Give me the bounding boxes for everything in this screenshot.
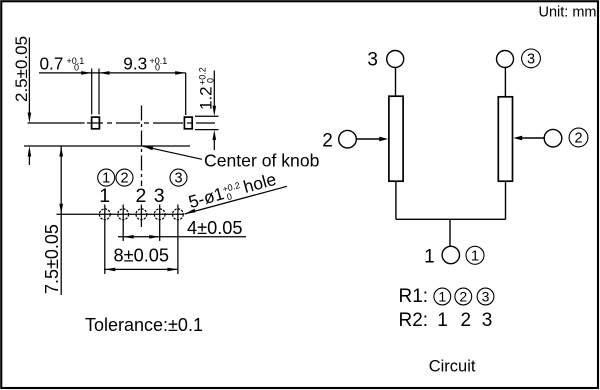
extension line for 9.3	[185, 73, 187, 115]
circled 3	[522, 49, 541, 68]
svg-text:0: 0	[226, 191, 234, 202]
hole H3	[136, 209, 147, 220]
svg-text:0.7: 0.7	[40, 53, 64, 73]
svg-text:1.2: 1.2	[197, 86, 216, 110]
terminal 1 circle	[442, 246, 459, 263]
svg-text:0: 0	[206, 78, 216, 83]
lever line left	[91, 69, 93, 115]
svg-text:3: 3	[174, 171, 182, 187]
svg-text:R2:: R2:	[399, 310, 429, 331]
hole H2	[118, 209, 129, 220]
svg-text:2: 2	[135, 185, 146, 207]
hole H1	[99, 209, 110, 220]
resistor R1 body	[389, 96, 403, 181]
wire bottom joining	[396, 218, 506, 220]
svg-text:2: 2	[459, 289, 467, 305]
dim 2.5 vertical line	[28, 38, 30, 113]
label 5-ø1 hole rotated	[186, 169, 278, 213]
terminal T1	[92, 117, 100, 129]
svg-text:7.5±0.05: 7.5±0.05	[42, 224, 62, 294]
svg-text:8±0.05: 8±0.05	[114, 246, 170, 266]
svg-text:0: 0	[155, 63, 160, 73]
svg-text:1: 1	[437, 310, 448, 331]
dim text 1.2 rotated	[197, 67, 216, 110]
svg-text:R1:: R1:	[399, 286, 429, 307]
svg-text:3: 3	[482, 289, 490, 305]
holes row line	[57, 213, 184, 215]
svg-text:3: 3	[154, 185, 165, 207]
tick hole5 / ext 8dim	[177, 205, 179, 275]
center line horizontal (dash-dot)	[28, 122, 216, 124]
svg-text:+0.2: +0.2	[221, 180, 241, 194]
pin label c2	[116, 169, 133, 186]
dim line 0.7 / 9.3	[39, 72, 186, 74]
wiper 2r circle	[544, 129, 562, 147]
wiper arrow right	[522, 137, 544, 139]
tick hole1 / ext 8dim	[104, 205, 106, 275]
svg-text:Unit: mm: Unit: mm	[539, 5, 597, 21]
leader 5-hole	[185, 186, 288, 214]
circled 1	[466, 246, 484, 264]
circled 2	[569, 128, 588, 147]
dim line 8±0.05	[104, 268, 179, 270]
wire to terminal 1	[449, 219, 451, 246]
wire top right	[504, 68, 506, 97]
knob vertical center line (dash-dot)	[141, 106, 143, 187]
lever line right	[98, 69, 100, 115]
svg-text:2: 2	[461, 310, 472, 331]
svg-text:1: 1	[471, 248, 479, 264]
dim 7.5 vertical line	[60, 146, 62, 295]
body bottom line	[24, 145, 190, 147]
wiper arrow left	[356, 138, 380, 140]
wiper 2 circle	[339, 130, 357, 148]
pin label c1	[98, 169, 115, 186]
wire bottom right	[505, 182, 507, 220]
terminal T2	[184, 117, 192, 129]
hole H4	[154, 209, 165, 220]
resistor R2 body	[498, 97, 512, 181]
svg-text:Center of knob: Center of knob	[204, 150, 320, 170]
tick hole3	[140, 205, 142, 228]
svg-text:3: 3	[367, 50, 378, 71]
leader center of knob	[143, 146, 202, 159]
extension lines for 1.2	[195, 115, 219, 117]
svg-text:2: 2	[574, 131, 582, 147]
svg-text:Tolerance:±0.1: Tolerance:±0.1	[85, 315, 203, 335]
svg-text:1: 1	[438, 289, 446, 305]
arrowheads dim line	[81, 71, 92, 75]
pin label c3	[170, 169, 187, 186]
tick hole4 / ext 4dim	[159, 205, 161, 242]
wire top left	[395, 68, 397, 96]
svg-text:2: 2	[120, 171, 128, 187]
svg-text:1: 1	[99, 185, 110, 207]
svg-text:3: 3	[482, 310, 493, 331]
svg-text:1: 1	[424, 247, 435, 268]
dim line 4±0.05	[118, 236, 246, 238]
svg-text:9.3: 9.3	[123, 53, 147, 73]
svg-text:2.5±0.05: 2.5±0.05	[12, 36, 31, 102]
terminal 3r circle	[497, 51, 514, 68]
terminal 3 circle	[387, 51, 404, 68]
svg-text:hole: hole	[241, 169, 278, 197]
wire bottom left	[395, 182, 397, 220]
svg-text:Circuit: Circuit	[429, 358, 476, 376]
svg-text:2: 2	[322, 131, 333, 152]
dim 1.2 vertical	[213, 71, 215, 107]
svg-text:4±0.05: 4±0.05	[187, 218, 243, 238]
svg-text:5-ø1: 5-ø1	[186, 183, 226, 212]
svg-text:0: 0	[74, 63, 79, 73]
tick hole2 / ext 4dim	[122, 205, 124, 242]
hole H5	[173, 209, 184, 220]
svg-text:3: 3	[527, 52, 535, 68]
